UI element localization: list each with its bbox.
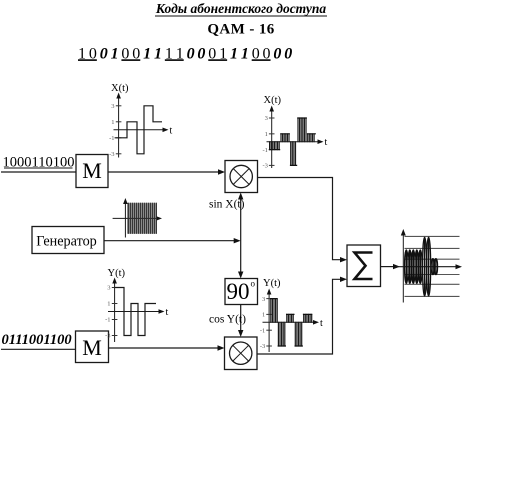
wire: code input to M2 xyxy=(1,348,76,350)
svg-text:Генератор: Генератор xyxy=(36,234,97,250)
summator block (sigma) xyxy=(347,245,381,287)
graph: Y(t) baseband steps xyxy=(105,268,168,342)
wire: M2 to multiplier U2 xyxy=(109,345,225,350)
svg-text:t: t xyxy=(325,137,328,148)
svg-text:X(t): X(t) xyxy=(111,83,129,94)
multiplier U1 (X branch mixer) xyxy=(225,161,258,193)
graph: X(t) modulated bursts xyxy=(262,95,327,170)
label cos Y(t) xyxy=(209,314,246,326)
wire: summator output xyxy=(381,264,401,269)
block M1 (manipulator, X branch) xyxy=(76,155,108,188)
svg-text:1: 1 xyxy=(111,119,114,126)
title: Коды абонентского доступа xyxy=(155,1,327,16)
graph: carrier sinusoid xyxy=(113,198,162,238)
svg-text:X(t): X(t) xyxy=(264,95,282,106)
block 90 degree phase shifter xyxy=(225,279,258,305)
svg-text:3: 3 xyxy=(265,115,268,122)
wire: U1 output to summator xyxy=(258,178,348,263)
svg-text:sin X(t): sin X(t) xyxy=(209,199,245,211)
node: input code 0111001100 xyxy=(2,332,72,348)
svg-text:3: 3 xyxy=(262,296,265,303)
node: input code 1000110100 xyxy=(3,155,75,171)
wire: phase shifter to U2 xyxy=(238,305,243,338)
svg-text:Y(t): Y(t) xyxy=(108,268,126,279)
wire: U2 output to summator xyxy=(257,277,347,354)
svg-text:3: 3 xyxy=(111,103,114,110)
block generator (Генератор) xyxy=(32,227,104,254)
svg-text:-1: -1 xyxy=(109,135,114,142)
svg-text:QAM - 16: QAM - 16 xyxy=(207,22,274,38)
svg-text:Y(t): Y(t) xyxy=(263,278,281,289)
wire: carrier vertical to U1 and phase shifter xyxy=(238,193,243,279)
svg-text:1: 1 xyxy=(265,131,268,138)
svg-text:1: 1 xyxy=(107,301,110,308)
svg-text:-3: -3 xyxy=(109,151,114,158)
block M2 (manipulator, Y branch) xyxy=(76,331,109,363)
wire: M1 to multiplier U1 xyxy=(108,169,225,174)
graph: Y(t) modulated bursts xyxy=(260,278,323,352)
svg-text:-3: -3 xyxy=(262,163,267,170)
svg-text:-1: -1 xyxy=(260,327,265,334)
graph: QAM output signal xyxy=(395,229,462,303)
svg-text:-1: -1 xyxy=(105,317,110,324)
bit sequence code word xyxy=(78,45,292,62)
svg-text:-3: -3 xyxy=(105,333,110,340)
wire: code input to M1 xyxy=(1,171,76,173)
svg-text:t: t xyxy=(170,126,173,137)
svg-text:Коды абонентского доступа: Коды абонентского доступа xyxy=(155,1,326,16)
svg-text:cos Y(t): cos Y(t) xyxy=(209,314,246,326)
level lines xyxy=(405,235,460,237)
graph: X(t) baseband steps xyxy=(109,83,172,158)
svg-text:М: М xyxy=(82,158,102,183)
svg-text:t: t xyxy=(320,318,323,329)
svg-text:90: 90 xyxy=(227,279,250,304)
svg-text:3: 3 xyxy=(107,285,110,292)
svg-text:о: о xyxy=(251,279,256,289)
multiplier U2 (Y branch mixer) xyxy=(225,337,258,370)
label sin X(t) xyxy=(209,199,245,211)
svg-text:0111001100: 0111001100 xyxy=(2,332,72,348)
svg-text:1 0 0 1 0 0 1 1 1 1 0 0 0 1 1: 1 0 0 1 0 0 1 1 1 1 0 0 0 1 1 1 0 0 0 0 xyxy=(78,45,292,62)
svg-text:-1: -1 xyxy=(262,147,267,154)
wire: generator to carrier junction xyxy=(104,238,241,243)
svg-text:-3: -3 xyxy=(260,343,265,350)
svg-text:1: 1 xyxy=(262,312,265,319)
svg-text:М: М xyxy=(82,335,102,360)
svg-text:t: t xyxy=(166,307,169,318)
subtitle: QAM - 16 xyxy=(207,22,274,38)
